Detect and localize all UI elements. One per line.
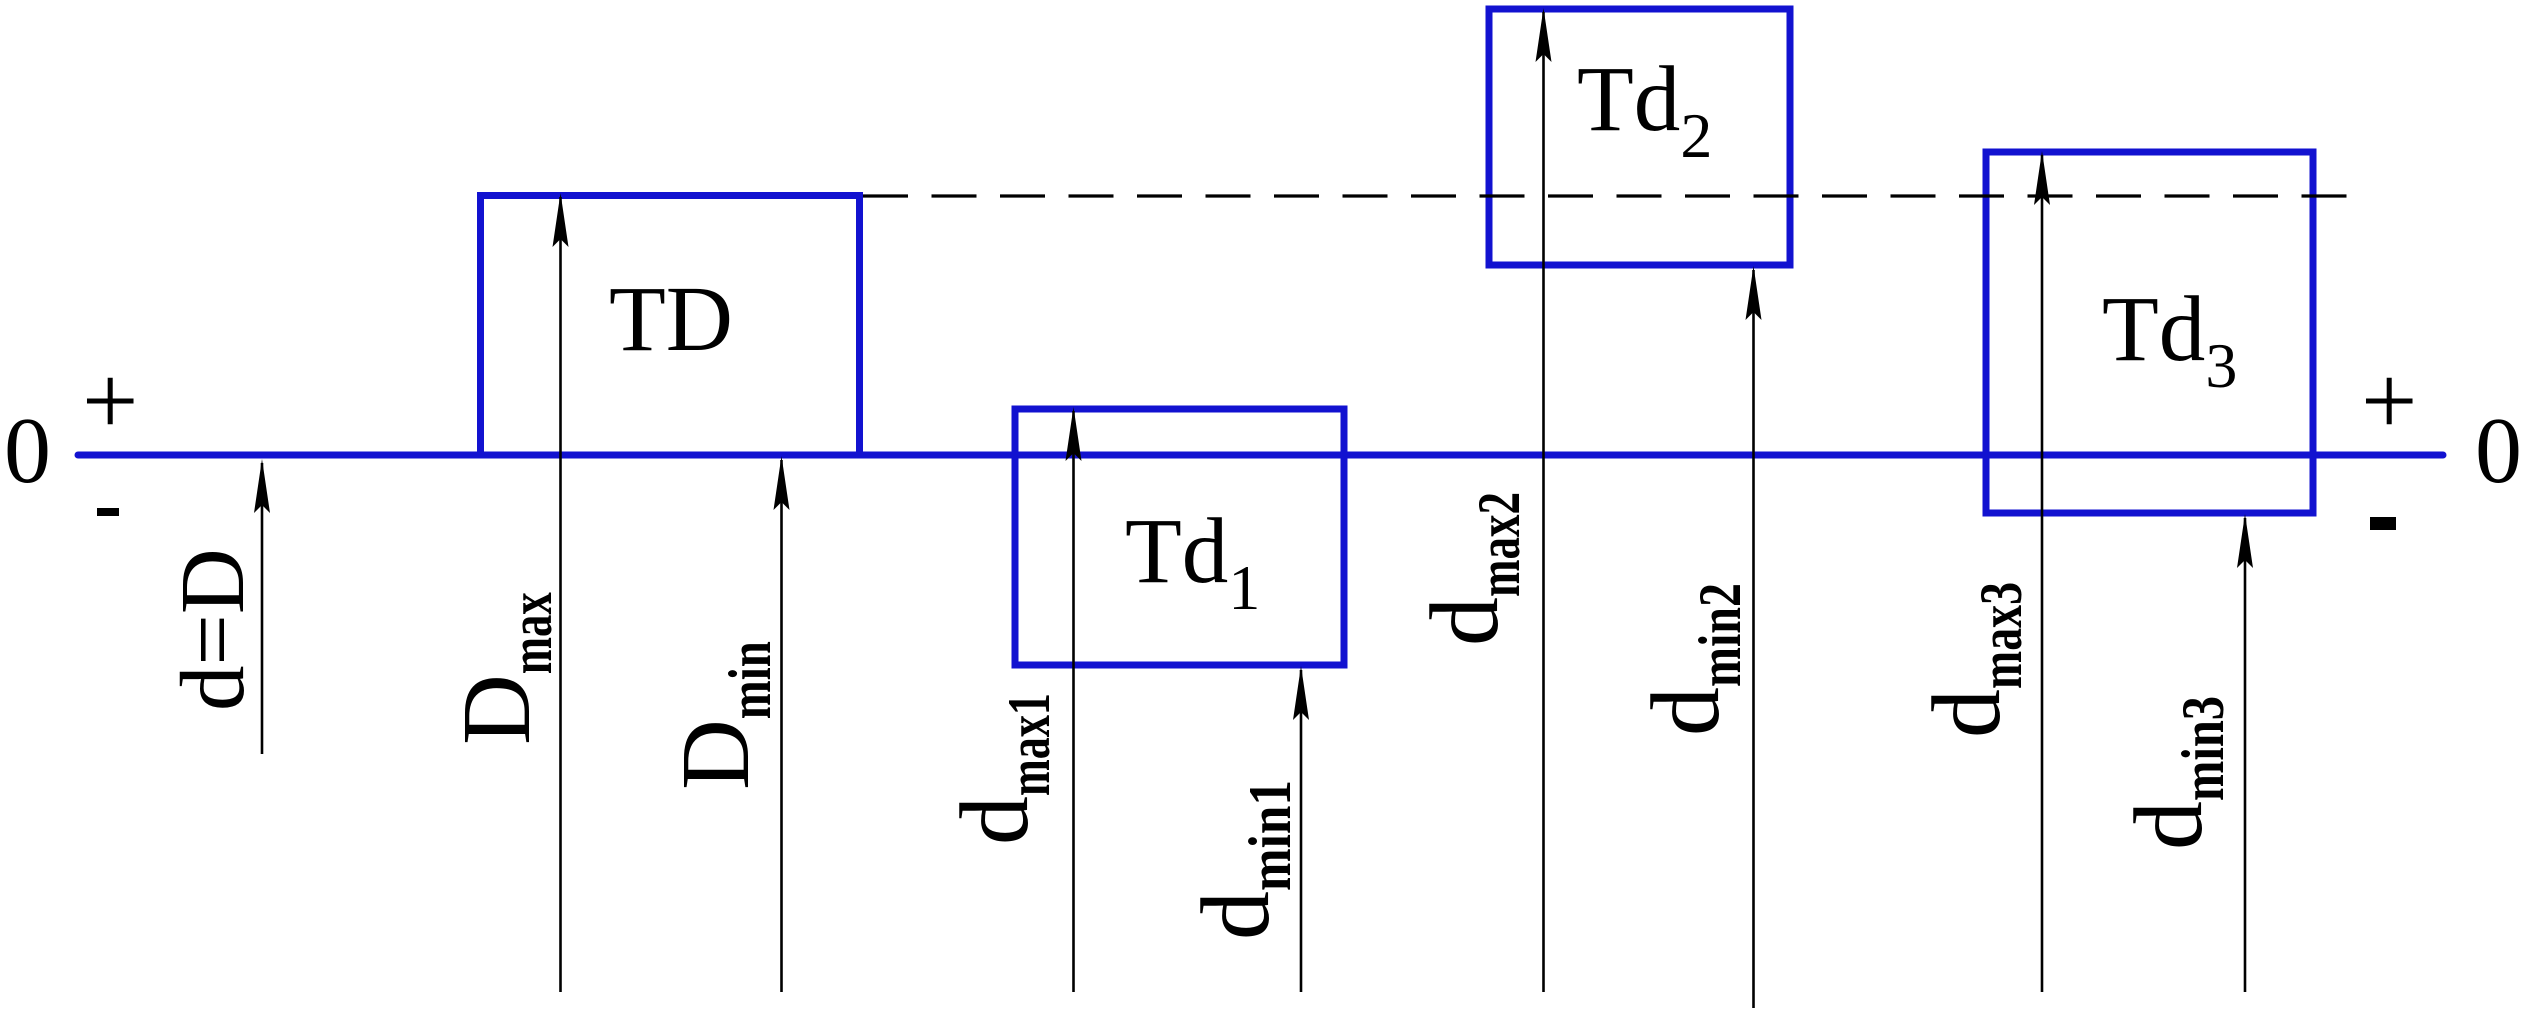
tolerance box Td1 (1015, 409, 1344, 665)
arrow dmin2 (1746, 266, 1762, 1008)
svg-text:+: + (82, 345, 138, 456)
tolerance box Td2 (1489, 9, 1790, 265)
zero line (78, 452, 2443, 459)
svg-text:TD: TD (609, 268, 733, 371)
label - right (2370, 517, 2396, 530)
tolerance box TD (481, 196, 860, 456)
arrow Dmax (553, 193, 569, 992)
svg-text:d=D: d=D (162, 548, 263, 711)
arrow dmax1 (1066, 407, 1082, 992)
svg-text:0: 0 (4, 399, 51, 503)
arrow dmax2 (1536, 8, 1552, 992)
tolerance box Td3 (1986, 152, 2313, 513)
arrow dmax3 (2034, 151, 2050, 992)
dashed reference line at TD upper limit (863, 194, 2352, 197)
svg-text:0: 0 (2475, 399, 2522, 503)
svg-text:+: + (2361, 345, 2417, 456)
arrow d=D (254, 459, 270, 754)
arrow dmin3 (2237, 514, 2253, 992)
label - left (97, 508, 119, 516)
arrow dmin1 (1293, 666, 1309, 992)
arrow Dmin (774, 456, 790, 992)
